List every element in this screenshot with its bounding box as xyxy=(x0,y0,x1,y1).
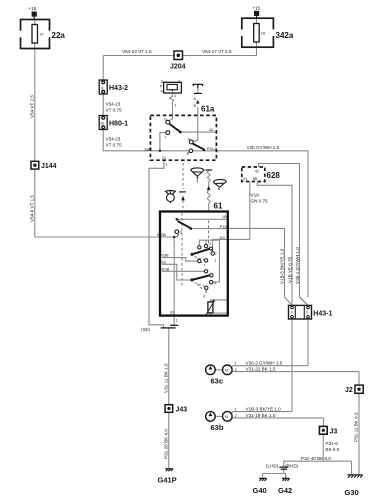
svg-text:G42: G42 xyxy=(278,486,292,495)
svg-text:V2b GY/WH 1.6: V2b GY/WH 1.6 xyxy=(247,145,280,150)
svg-text:628: 628 xyxy=(267,171,281,180)
svg-text:B: B xyxy=(187,152,190,156)
svg-text:G30: G30 xyxy=(345,488,359,497)
svg-text:1: 1 xyxy=(235,408,237,412)
svg-text:V31-19 BK 1.0: V31-19 BK 1.0 xyxy=(246,413,276,418)
svg-text:V54-23: V54-23 xyxy=(106,102,121,107)
svg-text:V54-23: V54-23 xyxy=(106,137,121,142)
svg-text:1: 1 xyxy=(176,319,178,323)
svg-text:A: A xyxy=(194,97,197,101)
svg-text:(RHD): (RHD) xyxy=(285,464,298,469)
svg-text:G41P: G41P xyxy=(158,476,177,485)
svg-text:S3B: S3B xyxy=(161,253,169,257)
svg-text:O: O xyxy=(164,117,167,121)
svg-text:6: 6 xyxy=(306,310,308,314)
svg-text:J43: J43 xyxy=(176,407,188,414)
svg-text:+15: +15 xyxy=(252,6,260,11)
svg-text:P: P xyxy=(160,85,163,89)
svg-text:63b: 63b xyxy=(211,423,224,432)
svg-text:+15: +15 xyxy=(29,6,37,11)
svg-text:6: 6 xyxy=(101,86,103,90)
svg-text:2mB: 2mB xyxy=(161,268,169,272)
svg-text:1: 1 xyxy=(215,259,217,263)
svg-text:VT 0.75: VT 0.75 xyxy=(106,143,122,148)
svg-text:2: 2 xyxy=(235,368,237,372)
svg-text:d2: d2 xyxy=(209,128,213,132)
svg-text:61a: 61a xyxy=(201,105,215,114)
svg-text:S33A: S33A xyxy=(157,233,167,237)
svg-text:1: 1 xyxy=(235,362,237,366)
svg-text:18: 18 xyxy=(261,32,265,36)
svg-text:BK 6.0: BK 6.0 xyxy=(326,447,340,452)
svg-text:D: D xyxy=(161,80,164,84)
svg-text:9: 9 xyxy=(180,230,182,234)
svg-text:22a: 22a xyxy=(52,31,66,40)
svg-text:V1B-3 BK/YE 1.0: V1B-3 BK/YE 1.0 xyxy=(246,407,282,412)
svg-text:H43-1: H43-1 xyxy=(313,310,332,317)
svg-text:V2b-1 GY/WH 1.0: V2b-1 GY/WH 1.0 xyxy=(295,247,300,284)
svg-text:V31-11 BK 1.0: V31-11 BK 1.0 xyxy=(163,363,168,393)
svg-text:V31-22 BK 1.5: V31-22 BK 1.5 xyxy=(246,367,276,372)
svg-text:(SD): (SD) xyxy=(141,327,150,332)
svg-text:(LHD): (LHD) xyxy=(266,464,279,469)
svg-text:T: T xyxy=(215,252,218,256)
svg-text:P31-40 BK 6.0: P31-40 BK 6.0 xyxy=(301,456,331,461)
svg-text:V30-2 GY/WH 1.5: V30-2 GY/WH 1.5 xyxy=(246,361,283,366)
svg-text:1: 1 xyxy=(165,162,167,166)
svg-text:B: B xyxy=(194,104,197,108)
svg-text:2: 2 xyxy=(235,414,237,418)
svg-text:J144: J144 xyxy=(41,163,57,170)
svg-text:G40: G40 xyxy=(253,486,267,495)
svg-text:V1B YE 0.75: V1B YE 0.75 xyxy=(287,256,292,283)
svg-text:V54-27 VT 2.5: V54-27 VT 2.5 xyxy=(202,49,232,54)
svg-text:10: 10 xyxy=(100,121,104,125)
svg-text:6: 6 xyxy=(214,281,216,285)
svg-text:3aM: 3aM xyxy=(144,147,151,151)
svg-text:37: 37 xyxy=(40,33,44,37)
svg-text:6B: 6B xyxy=(253,177,258,181)
svg-text:31: 31 xyxy=(170,311,174,315)
svg-text:J10: J10 xyxy=(219,236,225,240)
svg-text:H80-1: H80-1 xyxy=(109,121,128,128)
svg-text:21: 21 xyxy=(243,177,247,181)
svg-text:8: 8 xyxy=(205,290,207,294)
svg-text:7: 7 xyxy=(164,136,166,140)
svg-text:J2: J2 xyxy=(345,387,353,394)
svg-text:21: 21 xyxy=(162,156,166,160)
svg-text:H43-2: H43-2 xyxy=(109,85,128,92)
svg-text:V1B-5 BK/YE 1.0: V1B-5 BK/YE 1.0 xyxy=(280,248,285,284)
svg-text:J204: J204 xyxy=(170,64,186,71)
svg-text:P15: P15 xyxy=(220,225,227,229)
svg-text:P31-28 BK 4.0: P31-28 BK 4.0 xyxy=(163,429,168,459)
svg-text:V54-23 VT 1.5: V54-23 VT 1.5 xyxy=(122,49,152,54)
svg-text:GN 0.75: GN 0.75 xyxy=(251,198,269,203)
svg-text:VT 0.75: VT 0.75 xyxy=(106,108,122,113)
svg-text:V19: V19 xyxy=(251,192,260,197)
svg-text:S3: S3 xyxy=(161,260,166,264)
svg-text:P31-6: P31-6 xyxy=(326,441,339,446)
svg-text:M: M xyxy=(225,415,228,419)
svg-text:1B: 1B xyxy=(222,215,227,219)
svg-text:42: 42 xyxy=(255,169,259,173)
svg-text:61: 61 xyxy=(214,202,223,211)
svg-text:342a: 342a xyxy=(276,31,294,40)
svg-text:P1s.2: P1s.2 xyxy=(207,147,217,151)
svg-text:2: 2 xyxy=(209,242,211,246)
svg-text:2: 2 xyxy=(174,94,176,98)
svg-text:1: 1 xyxy=(175,103,177,107)
svg-text:63c: 63c xyxy=(211,377,224,386)
svg-text:J3: J3 xyxy=(330,429,338,436)
svg-text:V54-6 VT 1.5: V54-6 VT 1.5 xyxy=(29,195,34,222)
svg-text:3: 3 xyxy=(291,310,293,314)
svg-text:P31-11 BK 6.0: P31-11 BK 6.0 xyxy=(353,412,358,442)
svg-text:d: d xyxy=(203,295,205,299)
svg-text:M: M xyxy=(225,368,228,372)
svg-text:V54 VT 2.5: V54 VT 2.5 xyxy=(29,95,34,118)
